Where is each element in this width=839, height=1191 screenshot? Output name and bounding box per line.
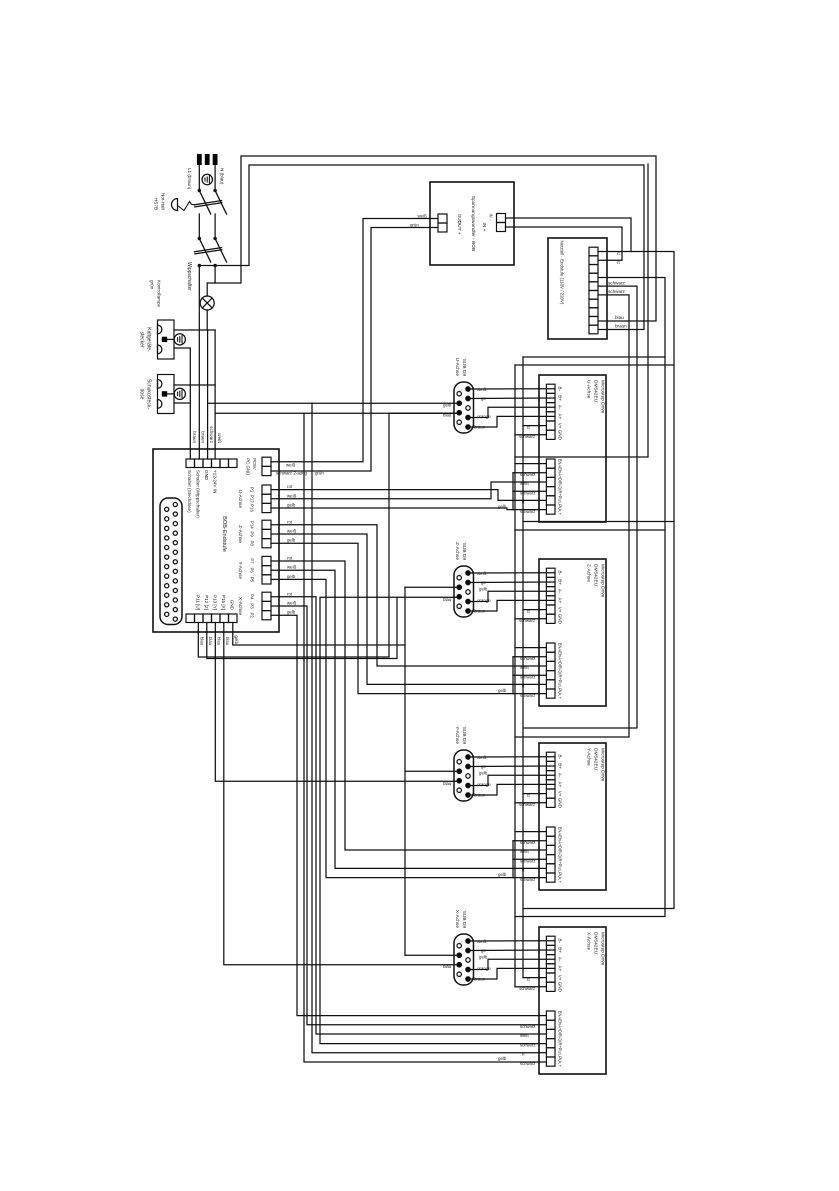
svg-text:blau: blau (225, 637, 230, 646)
wire rot P1 to PUL- U (271, 490, 546, 501)
svg-text:Netzteil - Endstufe (110V / 22: Netzteil - Endstufe (110V / 220V) (560, 241, 565, 305)
svg-text:Z-Achse: Z-Achse (237, 525, 243, 543)
wire V+ feed drop Z drive (523, 521, 674, 523)
svg-text:B-: B- (558, 387, 563, 392)
svg-text:Y-Achse: Y-Achse (454, 726, 460, 744)
svg-text:U-Achse: U-Achse (586, 380, 592, 399)
Not-Halt mushroom actuator (172, 199, 178, 211)
svg-text:V+: V+ (558, 607, 563, 613)
svg-text:P16: P16 (250, 504, 255, 512)
svg-text:schwarz: schwarz (519, 618, 535, 623)
svg-text:P4: P4 (250, 594, 255, 600)
svg-text:PC5V: PC5V (252, 458, 257, 470)
svg-text:ge: ge (481, 948, 486, 953)
wire schwarz rail to Y GND (515, 295, 629, 737)
wire commons bar Z (512, 657, 514, 694)
wire schwarz ENA+ drop Z (513, 656, 546, 658)
svg-text:L1 (braun): L1 (braun) (187, 168, 192, 190)
svg-text:rot: rot (287, 556, 293, 561)
svg-text:HS7B: HS7B (154, 198, 159, 210)
svg-text:schwarz: schwarz (519, 986, 535, 991)
wire rt V+ riser Y (523, 793, 546, 795)
svg-text:braun: braun (474, 976, 486, 981)
wire ENA- tap from GND chain Z (515, 647, 546, 649)
svg-text:weiß: weiß (287, 601, 297, 606)
svg-text:P2: P2 (250, 613, 255, 619)
Microstep Drive DM542EU U-Achse box (539, 375, 606, 522)
wire schwarz OUT+ to PC GND (271, 228, 438, 472)
wire weiss P3 to ENA+ X (271, 606, 546, 1025)
svg-text:A-: A- (558, 957, 563, 962)
svg-text:gelb: gelb (479, 955, 488, 960)
svg-text:A-: A- (558, 773, 563, 778)
gelb GND rail (233, 623, 405, 646)
svg-text:A-: A- (558, 405, 563, 410)
svg-text:rot: rot (287, 484, 293, 489)
wire drop to Schukosteckdose (174, 384, 215, 386)
Netzteil-Endstufe box (548, 238, 607, 339)
svg-text:P11 [U]: P11 [U] (196, 595, 201, 610)
wire rot P7 to DIR- Y (271, 561, 546, 850)
wire rt V+ chain across drives (522, 357, 524, 978)
svg-text:SUB D9: SUB D9 (461, 359, 467, 377)
svg-text:A-: A- (558, 589, 563, 594)
svg-text:weiß: weiß (287, 493, 297, 498)
svg-text:P5: P5 (250, 577, 255, 583)
wire schwarz ENA+ drop U (513, 472, 546, 474)
wire schwarz DIR+ drop Z (513, 674, 546, 676)
wire gelb P16 to commons U (271, 508, 513, 510)
wire blau P11 to U D9 (198, 413, 458, 657)
wire schwarz D9 to A- X (468, 959, 555, 969)
svg-text:A+: A+ (558, 598, 563, 604)
svg-text:Wippschalter: Wippschalter (186, 262, 192, 291)
svg-text:B+: B+ (558, 763, 563, 769)
svg-text:P7: P7 (250, 558, 255, 564)
svg-text:Y-Achse: Y-Achse (237, 561, 243, 579)
svg-text:braun: braun (474, 424, 486, 429)
wire schwarz rail to Y V+ (523, 286, 637, 728)
Kontrolllampe gruen (200, 296, 214, 310)
wire L1 braun rail to Netzteil pin10 (199, 165, 644, 330)
wire schwarz D9 to A- U (468, 407, 555, 417)
Spannungswandler OUT+ pin (438, 223, 447, 232)
svg-text:P12 [Z]: P12 [Z] (204, 595, 209, 610)
wire blau U D9 to 24V net (215, 412, 458, 414)
svg-text:orange: orange (477, 782, 491, 787)
BOB-Endstufe box (153, 449, 279, 632)
wire gelb Z D9 (405, 586, 458, 588)
wire N blau rail to Netzteil pin9 (215, 156, 656, 321)
wire schwarz GND riser U (515, 434, 546, 436)
svg-text:grün: grün (315, 470, 324, 475)
svg-text:DM542EU: DM542EU (593, 380, 599, 403)
wire schwarz PUL+ drop U (513, 509, 546, 511)
svg-text:GND: GND (558, 798, 563, 809)
drive Y control terminal strip (546, 827, 555, 836)
wire commons bar Y (512, 841, 514, 878)
wire ENA- tap from GND chain U (515, 463, 546, 465)
BOB right pin strip (229, 614, 238, 623)
wire ENA rail to GND chain (515, 164, 648, 457)
svg-text:schwarz: schwarz (520, 509, 535, 514)
wire schwarz DIR+ drop U (513, 490, 546, 492)
svg-text:DM542EU: DM542EU (593, 932, 599, 955)
svg-text:X-Achse: X-Achse (237, 597, 243, 615)
svg-text:grün: grün (150, 280, 155, 290)
BOB pin group U-Achse (262, 485, 271, 494)
svg-text:+12-24V IN: +12-24V IN (213, 470, 218, 493)
Microstep Drive DM542EU Y-Achse box (539, 743, 606, 890)
svg-text:rot: rot (287, 591, 293, 596)
svg-text:N (blau): N (blau) (220, 168, 225, 185)
svg-text:GND: GND (558, 430, 563, 441)
drive U motor terminal strip (546, 384, 555, 393)
svg-text:gelb: gelb (287, 538, 296, 543)
wire weiss D9 to B- Y (468, 756, 555, 758)
SUB D9 Y-Achse connector (454, 750, 474, 801)
svg-text:Microstep Drive: Microstep Drive (600, 748, 606, 782)
wire schwarz D9 to A- Z (468, 591, 555, 601)
socket box Kaltgeräte-stecker (158, 320, 175, 359)
svg-text:IN -: IN - (489, 214, 494, 221)
wire schwarz GND riser Y (515, 802, 546, 804)
svg-text:braun: braun (474, 608, 486, 613)
svg-text:schwarz: schwarz (520, 693, 535, 698)
svg-text:dose: dose (139, 389, 145, 400)
wire L1 braun to BOB Schalter (Wippschalter) (198, 266, 200, 460)
svg-text:B+: B+ (558, 947, 563, 953)
wire weiss D9 to B- U (468, 388, 555, 390)
svg-text:blau: blau (200, 637, 205, 646)
wire ENA- tap from GND chain Y (515, 831, 546, 833)
svg-text:schwarz: schwarz (520, 472, 535, 477)
Not-Halt switch HS7B (195, 189, 227, 214)
svg-text:schwarz: schwarz (519, 434, 535, 439)
wire ge D9 to B+ Z (468, 581, 555, 584)
svg-text:B-: B- (558, 755, 563, 760)
wire schwarz D9 to A- Y (468, 775, 555, 785)
wire blau P13 to Y D9 (215, 623, 458, 782)
wire gelb P5 to commons Y (271, 579, 513, 877)
DB25 parallel port connector (160, 498, 182, 625)
svg-text:weiß: weiß (477, 755, 487, 760)
wire blau P12 to Z D9 (207, 597, 397, 658)
svg-text:V+: V+ (558, 423, 563, 429)
svg-text:SUB D9: SUB D9 (461, 727, 467, 745)
svg-text:gelb: gelb (498, 1056, 507, 1061)
wire blau Z D9 rail to X DIR+ (320, 597, 546, 1043)
svg-text:Schukosteck-: Schukosteck- (146, 379, 152, 409)
svg-text:grün: grün (410, 223, 419, 228)
wire commons bar U (512, 473, 514, 510)
wire weiss D9 to B- X (468, 940, 555, 942)
wire braun D9 to A+ Z (468, 600, 555, 611)
drive Y motor terminal strip (546, 752, 555, 761)
wire braun D9 to A+ U (468, 416, 555, 427)
svg-text:PUL+: PUL+ (558, 688, 563, 699)
svg-text:weiß: weiß (287, 529, 297, 534)
wire braun to BOB Schalter (Steckdose) (174, 348, 190, 459)
svg-text:B-: B- (558, 571, 563, 576)
wire ge D9 to B+ Y (468, 765, 555, 768)
svg-text:A+: A+ (558, 782, 563, 788)
BOB pin group Y-Achse (262, 556, 271, 565)
wire braun D9 to A+ X (468, 968, 555, 979)
svg-text:gelb: gelb (479, 771, 488, 776)
wire rt V+ riser U (523, 425, 546, 427)
wire weiss P9 to PUL- Z (271, 534, 546, 684)
svg-text:P6: P6 (250, 568, 255, 574)
svg-text:gelb: gelb (498, 688, 507, 693)
svg-text:schwarz: schwarz (520, 674, 535, 679)
svg-text:P14: P14 (250, 521, 255, 529)
svg-text:IN +: IN + (481, 223, 487, 232)
svg-text:P1: P1 (250, 487, 255, 493)
svg-text:A+: A+ (558, 966, 563, 972)
svg-text:U-Achse: U-Achse (237, 490, 243, 509)
Microstep Drive DM542EU Z-Achse box (539, 559, 606, 706)
svg-text:GND: GND (204, 470, 209, 481)
wire GND feed drop U drive (515, 364, 674, 366)
svg-text:braun: braun (474, 792, 486, 797)
wire gelb U D9 to GND net (208, 402, 458, 404)
svg-text:gelb: gelb (498, 872, 507, 877)
wire schwarz PUL+ drop Y (513, 877, 546, 879)
Spannungswandler DCD-BOB box (430, 182, 514, 265)
svg-text:schwarz: schwarz (520, 858, 535, 863)
wire L1 to Not-Halt (198, 165, 200, 190)
svg-text:Spannungswandler - BOB: Spannungswandler - BOB (470, 196, 476, 251)
wire rt V+ riser Z (523, 609, 546, 611)
svg-text:Z-Achse: Z-Achse (454, 542, 460, 560)
svg-text:blau: blau (208, 637, 213, 646)
wire lamp left (206, 283, 208, 296)
drive U control terminal strip (546, 459, 555, 468)
wire weiss P17 to DIR- U (271, 482, 546, 499)
svg-text:braun: braun (615, 324, 627, 329)
wire blau P15 to X D9 (224, 623, 458, 965)
wire rt V+ riser X (523, 977, 546, 979)
wire N to Kontrolllampe (207, 282, 215, 284)
svg-text:rot: rot (287, 519, 293, 524)
Microstep Drive DM542EU X-Achse box (539, 927, 606, 1074)
svg-text:X-Achse: X-Achse (586, 932, 592, 950)
drive Z control terminal strip (546, 643, 555, 652)
svg-text:gelb: gelb (443, 403, 452, 408)
svg-text:orange: orange (477, 598, 491, 603)
svg-text:Microstep Drive: Microstep Drive (600, 380, 606, 414)
wire gelb Y D9 (405, 770, 458, 772)
svg-text:schwarz: schwarz (608, 289, 626, 294)
svg-text:P8: P8 (250, 541, 255, 547)
wire rt Netzteil pin2 to IN+ (506, 227, 623, 260)
svg-text:weiß: weiß (286, 463, 296, 468)
svg-text:gelb: gelb (234, 635, 239, 644)
wire Schuko to braun net (174, 402, 190, 404)
svg-text:GND: GND (558, 614, 563, 625)
svg-text:weiß: weiß (287, 565, 297, 570)
wire lamp right (206, 310, 208, 330)
wire schwarz to BOB GND (207, 330, 209, 459)
wire braun D9 to A+ Y (468, 784, 555, 795)
svg-text:Not-Halt: Not-Halt (161, 193, 166, 211)
svg-text:ge: ge (481, 580, 486, 585)
svg-text:PUL+: PUL+ (558, 872, 563, 883)
wire gelb P8 to commons Z (271, 543, 513, 693)
svg-text:stecker: stecker (139, 331, 145, 347)
svg-text:schwarz: schwarz (608, 280, 626, 285)
wire rot P14 to DIR- Z (271, 525, 546, 666)
wire N Not-Halt to Wippschalter (214, 214, 216, 238)
drive Z motor terminal strip (546, 568, 555, 577)
svg-text:blau: blau (615, 315, 624, 320)
svg-text:Kaltgeräte-: Kaltgeräte- (146, 327, 152, 352)
svg-text:PC GND: PC GND (246, 458, 251, 475)
svg-text:schwarz 2-adrig: schwarz 2-adrig (276, 470, 308, 475)
Spannungswandler IN+ pin (497, 223, 506, 232)
svg-text:Microstep Drive: Microstep Drive (600, 932, 606, 966)
svg-text:Z-Achse: Z-Achse (586, 564, 592, 582)
PE earth symbol circle (202, 174, 212, 184)
svg-text:Schalter (Wippschalter): Schalter (Wippschalter) (196, 470, 201, 518)
SUB D9 X-Achse connector (454, 934, 474, 985)
svg-text:P13 [Y]: P13 [Y] (213, 595, 218, 610)
svg-text:weiß: weiß (477, 387, 487, 392)
svg-text:gelb: gelb (287, 503, 296, 508)
wire V+ feed drop U drive (523, 356, 665, 358)
svg-text:weiß: weiß (217, 433, 222, 443)
svg-text:gelb: gelb (479, 587, 488, 592)
svg-text:weiß: weiß (418, 213, 428, 218)
svg-text:PUL+: PUL+ (558, 1056, 563, 1067)
mains plug pin L1 (197, 154, 202, 165)
wire weiss D9 to B- Z (468, 572, 555, 574)
mains plug pin PE (205, 154, 210, 165)
wire schwarz DIR+ drop Y (513, 858, 546, 860)
svg-text:schwarz: schwarz (520, 656, 535, 661)
svg-text:B-: B- (558, 939, 563, 944)
svg-text:V+: V+ (558, 791, 563, 797)
wire ge D9 to B+ U (468, 397, 555, 400)
drive X control terminal strip (546, 1011, 555, 1020)
svg-text:GND: GND (230, 600, 235, 611)
BOB pin group Z-Achse (262, 520, 271, 529)
svg-text:SUB D9: SUB D9 (461, 911, 467, 929)
svg-text:braun: braun (192, 431, 197, 443)
wire weiss P6 to PUL- Y (271, 570, 546, 868)
wire gelb P2 to ENA- X (271, 615, 546, 1015)
svg-text:weiß: weiß (477, 939, 487, 944)
wire GND feed drop Z drive (515, 529, 665, 531)
svg-text:schwarz: schwarz (209, 426, 214, 444)
svg-text:Kontrollampe: Kontrollampe (157, 280, 162, 308)
wire drop to Kaltgeraetestecker (174, 329, 215, 331)
BOB left pin strip (229, 459, 238, 468)
svg-text:Y-Achse: Y-Achse (586, 748, 592, 766)
svg-text:B+: B+ (558, 395, 563, 401)
svg-text:P15 [X]: P15 [X] (221, 595, 226, 610)
SUB D9 Z-Achse connector (454, 566, 474, 617)
BOB pin group X-Achse (262, 592, 271, 601)
Netzteil pin strip (589, 247, 598, 256)
wire schwarz GND riser Z (515, 618, 546, 620)
svg-text:SUB D9: SUB D9 (461, 543, 467, 561)
wire gelb X D9 (405, 954, 458, 956)
wire weiss to BOB +12-24V IN (214, 330, 216, 459)
svg-text:U-Achse: U-Achse (454, 358, 460, 377)
wire N to Not-Halt (214, 165, 216, 190)
socket box Schukosteck-dose (158, 375, 175, 414)
Wippschalter switch (195, 237, 227, 266)
wire rail y527 to X PUL- (312, 403, 546, 1053)
svg-text:gelb: gelb (287, 610, 296, 615)
svg-text:A+: A+ (558, 414, 563, 420)
drive X motor terminal strip (546, 936, 555, 945)
wire schwarz GND riser X (515, 986, 546, 988)
wire L1 Not-Halt to Wippschalter (198, 214, 200, 238)
wire ge D9 to B+ X (468, 949, 555, 952)
svg-text:ge: ge (481, 396, 486, 401)
Spannungswandler IN- pin (497, 214, 506, 223)
svg-text:DM542EU: DM542EU (593, 748, 599, 771)
wire schwarz PUL+ drop Z (513, 693, 546, 695)
svg-text:GND: GND (558, 982, 563, 993)
svg-text:orange: orange (477, 966, 491, 971)
svg-text:P17: P17 (250, 495, 255, 503)
BOB pin group PC (262, 457, 271, 466)
svg-text:Microstep Drive: Microstep Drive (600, 564, 606, 598)
SUB D9 U-Achse connector (454, 382, 474, 433)
svg-text:orange: orange (477, 414, 491, 419)
svg-text:Schalter (Steckdose): Schalter (Steckdose) (187, 470, 192, 513)
wire rt rail to X V+ (523, 252, 674, 909)
svg-text:P9: P9 (250, 531, 255, 537)
wire rail to X GND (515, 278, 665, 917)
mains plug pin N (213, 154, 218, 165)
svg-text:schwarz: schwarz (520, 490, 535, 495)
Spannungswandler OUT- pin (438, 214, 447, 223)
svg-text:PUL+: PUL+ (558, 504, 563, 515)
wire schwarz GND chain across drives (514, 365, 516, 987)
svg-text:P3: P3 (250, 603, 255, 609)
svg-text:blau: blau (217, 637, 222, 646)
svg-text:ge: ge (481, 764, 486, 769)
svg-text:schwarz: schwarz (520, 840, 535, 845)
svg-text:DM542EU: DM542EU (593, 564, 599, 587)
wire weiss OUT- to PC5V (271, 219, 438, 462)
wire rt Netzteil pin1 to IN- (506, 218, 632, 252)
wire rot P4 to DIR- X (271, 597, 546, 1034)
wire schwarz ENA+ drop Y (513, 840, 546, 842)
svg-text:schwarz: schwarz (519, 802, 535, 807)
svg-text:V+: V+ (558, 975, 563, 981)
wire gelb rail (404, 587, 406, 955)
svg-text:B+: B+ (558, 579, 563, 585)
svg-text:weiß: weiß (477, 571, 487, 576)
svg-text:braun: braun (201, 431, 206, 443)
svg-text:gelb: gelb (287, 574, 296, 579)
wire rail y535 to X PUL+ (304, 413, 546, 1062)
svg-text:BOB-Endstufe: BOB-Endstufe (221, 516, 227, 552)
svg-text:schwarz: schwarz (520, 877, 535, 882)
svg-text:X-Achse: X-Achse (454, 910, 460, 928)
